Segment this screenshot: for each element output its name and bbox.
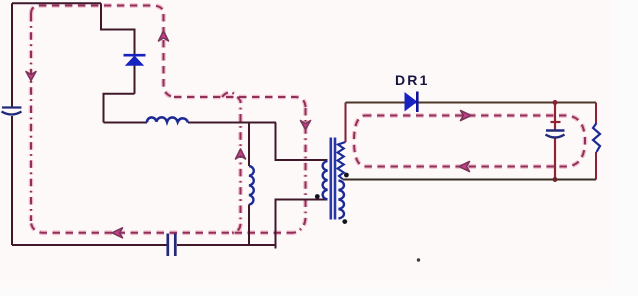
junction dot bottom of cap branch [553,177,558,182]
resistor R-load [593,123,600,152]
wire bottom rail right part [177,244,276,246]
wire secondary top lead [345,103,347,143]
dashed loops dark core pass [31,6,585,233]
arrowheads [26,31,471,238]
transformer T1 primary winding [323,161,328,199]
inductor L1 [147,117,188,122]
dot primary polarity [315,194,320,199]
arrow left on secondary loop bottom [459,162,470,172]
dot secondary tap polarity [344,173,349,178]
wire primary bottom arm [276,200,328,249]
dashed loops pink halo pass [31,6,585,233]
wire magnetizing branch upper [248,123,250,167]
transformer T1 core [331,138,335,220]
wire left vertical lower [11,116,13,245]
wire top rail [12,2,101,4]
transformer T1 lower winding [339,181,344,219]
wire left vertical upper [11,3,13,106]
arrow up on x240 dashed [236,149,246,159]
wire output cap branch lower [554,138,556,180]
svg-text:DR1: DR1 [395,72,430,88]
wire primary top arm [276,123,328,161]
capacitor C-in plates [2,108,22,115]
wire output top rail [346,102,597,104]
arrow up on x164 dashed [159,31,169,41]
capacitor C-out plates [546,131,565,138]
diode DR1 [405,92,417,113]
capacitor C2 bottom plates [168,234,176,257]
diode D1 freewheel [124,55,146,65]
wire load right vertical lower [595,152,597,180]
wire bottom rail left part [12,244,167,246]
dot lower winding polarity [342,219,347,224]
plus polarity tick on cap branch [551,121,561,123]
arrow down on left loop [26,72,36,81]
arrow right on secondary loop top [461,111,472,121]
wire load right vertical upper [595,103,597,124]
wire output bottom rail [343,179,597,181]
inductor Lm magnetizing winding [249,166,254,205]
wire magnetizing branch lower [248,205,250,246]
wire below diode to inductor rail [104,94,135,123]
junction dot top of cap branch [553,100,558,105]
wire output cap branch upper [554,103,556,130]
arrow down on x305 dashed [301,121,311,130]
wire inductor rail right part [188,122,276,124]
stray ink dot [417,258,420,261]
arrow left on bottom dashed [112,228,123,238]
transformer T1 secondary upper winding [338,142,346,179]
wire inductor rail left part [104,122,148,124]
wire step to diode branch [101,3,135,94]
